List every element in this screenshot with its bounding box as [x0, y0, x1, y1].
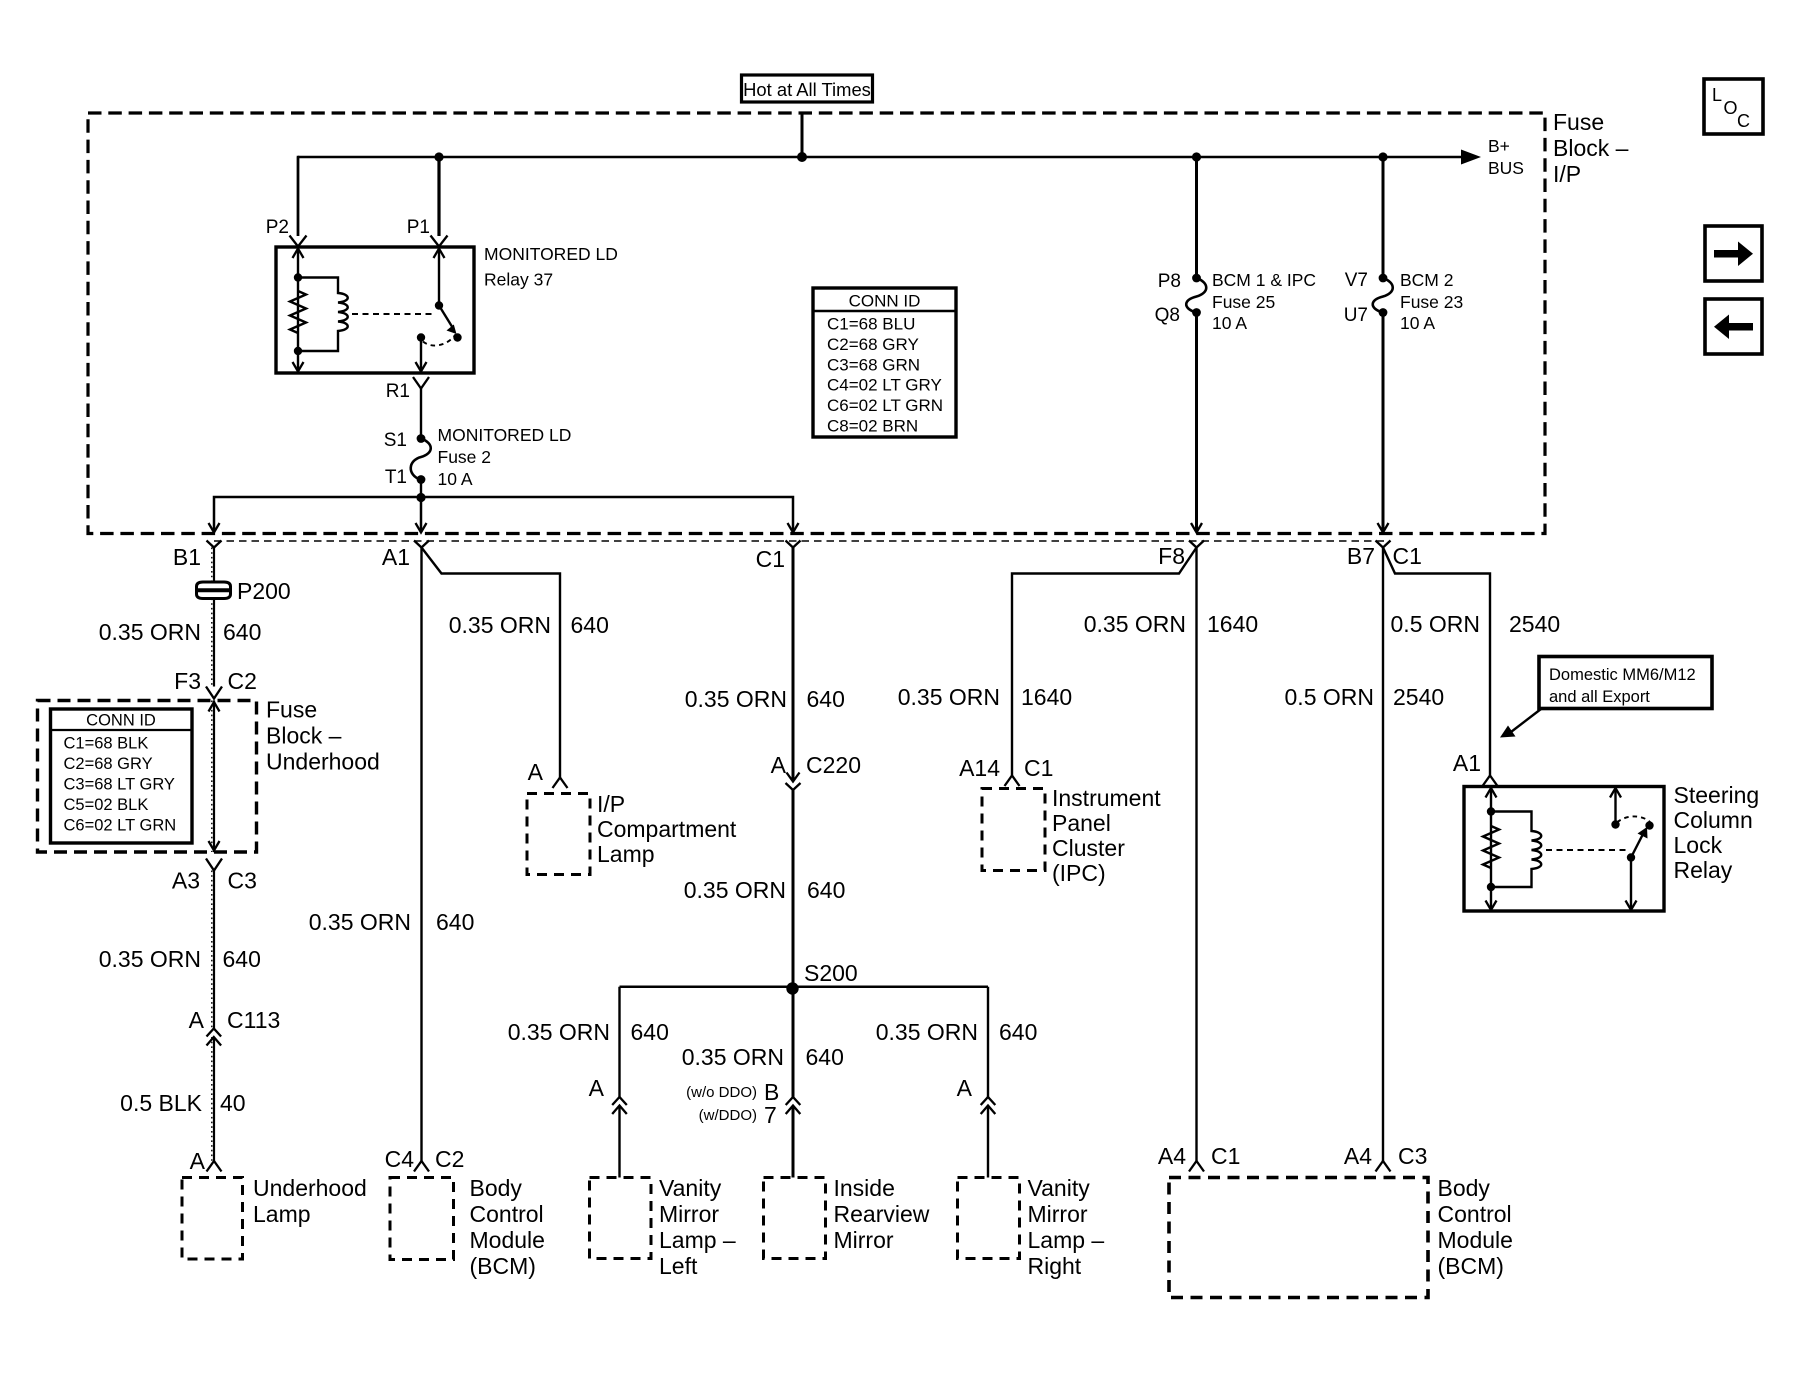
svg-text:B+: B+ [1488, 136, 1510, 156]
steering column lock relay box [1464, 787, 1664, 912]
svg-text:A: A [190, 1148, 206, 1174]
wire to vanity right box [987, 1106, 989, 1178]
steering relay coil pin arrows [1490, 788, 1492, 910]
wire A1 branch to I/P lamp [422, 548, 561, 778]
note arrow [1509, 709, 1541, 734]
pin A underhood lamp [207, 1161, 222, 1172]
next-page arrow box [1705, 226, 1762, 281]
svg-text:640: 640 [807, 686, 845, 712]
relay 37 switch dashed arc [423, 335, 456, 346]
wire R1 to fuse 2 [420, 389, 422, 439]
svg-text:A: A [528, 759, 544, 785]
pin A4/C1 connector [1189, 1161, 1204, 1172]
svg-text:0.5 BLK: 0.5 BLK [120, 1090, 202, 1116]
svg-text:A: A [957, 1075, 973, 1101]
svg-text:and all Export: and all Export [1549, 688, 1650, 706]
svg-text:Block –: Block – [266, 723, 342, 749]
arrow into B1 [209, 523, 220, 533]
S200 distribution wire [620, 985, 989, 988]
svg-text:Underhood: Underhood [253, 1175, 367, 1201]
svg-text:Domestic MM6/M12: Domestic MM6/M12 [1549, 666, 1696, 684]
svg-text:V7: V7 [1345, 270, 1368, 291]
svg-text:Relay: Relay [1674, 857, 1733, 883]
svg-text:Module: Module [470, 1227, 545, 1253]
svg-text:Lamp: Lamp [253, 1201, 311, 1227]
wire S200 to rearview mirror [792, 989, 795, 1098]
pin F3 connector [206, 687, 222, 699]
pin A14 connector [1005, 776, 1020, 787]
pin P1 connector [431, 236, 448, 247]
node steering arm tip [1645, 821, 1653, 829]
svg-text:0.5 ORN: 0.5 ORN [1391, 611, 1480, 637]
svg-text:O: O [1724, 98, 1738, 118]
svg-text:0.35 ORN: 0.35 ORN [309, 909, 411, 935]
wire B1 to P200 [213, 548, 215, 583]
svg-text:Hot at All Times: Hot at All Times [743, 79, 871, 100]
svg-text:C3: C3 [1398, 1143, 1427, 1169]
svg-text:(BCM): (BCM) [1438, 1253, 1504, 1279]
pin P2 connector [290, 236, 307, 247]
steering relay fixed contact [1614, 788, 1616, 823]
svg-text:C113: C113 [227, 1007, 280, 1033]
wire B7 branch to steering relay [1383, 548, 1490, 776]
underhood lamp box [182, 1178, 243, 1260]
svg-text:C1=68 BLK: C1=68 BLK [64, 735, 149, 753]
node bus junction at hot feed [797, 152, 807, 162]
svg-text:I/P: I/P [1553, 161, 1581, 187]
resistor relay 37 internal [290, 291, 306, 333]
svg-text:0.5 ORN: 0.5 ORN [1285, 684, 1374, 710]
note box Domestic MM6/M12 [1539, 657, 1712, 709]
connector A vanity right [981, 1097, 996, 1105]
fuse F23 element [1373, 278, 1393, 313]
svg-text:A1: A1 [1453, 750, 1481, 776]
svg-text:F3: F3 [174, 668, 201, 694]
svg-text:40: 40 [220, 1090, 246, 1116]
wire P200 to F3 [213, 599, 215, 687]
svg-text:(w/DDO): (w/DDO) [699, 1107, 757, 1124]
svg-text:C2=68 GRY: C2=68 GRY [64, 755, 153, 773]
splice P200 [197, 582, 231, 599]
node P1 bus junction [434, 152, 443, 161]
fuse F2 element [411, 439, 431, 480]
svg-text:C1=68 BLU: C1=68 BLU [827, 315, 915, 334]
steering relay actuation dashed link [1546, 849, 1627, 851]
svg-text:F8: F8 [1158, 543, 1185, 569]
svg-text:Lamp: Lamp [597, 841, 655, 867]
svg-text:7: 7 [764, 1102, 777, 1128]
svg-text:(IPC): (IPC) [1052, 860, 1106, 886]
pin B7 connector [1376, 541, 1391, 548]
svg-text:C: C [1737, 111, 1750, 131]
pin A I/P lamp [553, 778, 568, 789]
node BCM1 bus junction [1192, 152, 1201, 161]
svg-text:B1: B1 [173, 544, 201, 570]
svg-text:Vanity: Vanity [1028, 1175, 1091, 1201]
svg-text:C3=68 LT GRY: C3=68 LT GRY [64, 776, 175, 794]
resistor steering relay internal [1483, 826, 1499, 868]
svg-text:Q8: Q8 [1155, 305, 1180, 326]
svg-text:C3: C3 [228, 868, 257, 894]
svg-text:Vanity: Vanity [659, 1175, 722, 1201]
connector C113 [207, 1029, 222, 1037]
svg-text:640: 640 [223, 619, 261, 645]
svg-text:(w/o DDO): (w/o DDO) [686, 1084, 757, 1101]
wire bus to fuse 23 [1382, 157, 1385, 278]
svg-text:CONN ID: CONN ID [849, 292, 921, 311]
I/P compartment lamp box [527, 794, 590, 875]
svg-text:P1: P1 [407, 217, 430, 238]
steering relay dashed arc [1617, 816, 1650, 822]
svg-text:Body: Body [470, 1175, 523, 1201]
svg-text:I/P: I/P [597, 791, 625, 817]
pin A1 steering relay [1483, 776, 1498, 787]
node P8 [1192, 274, 1201, 283]
svg-text:C1: C1 [1393, 543, 1422, 569]
svg-text:Mirror: Mirror [834, 1227, 894, 1253]
wire through underhood block [213, 701, 215, 853]
svg-text:C8=02 BRN: C8=02 BRN [827, 417, 918, 436]
svg-text:C1: C1 [1211, 1143, 1240, 1169]
wire fuse 23 to B7 [1382, 313, 1385, 532]
svg-text:A: A [589, 1075, 605, 1101]
pin A3 connector [206, 859, 222, 871]
svg-text:C2=68 GRY: C2=68 GRY [827, 335, 919, 354]
svg-text:0.35 ORN: 0.35 ORN [99, 946, 201, 972]
table CONN ID fuse block underhood [51, 709, 193, 843]
svg-text:0.35 ORN: 0.35 ORN [898, 684, 1000, 710]
svg-text:640: 640 [631, 1019, 669, 1045]
svg-text:0.35 ORN: 0.35 ORN [684, 877, 786, 903]
node relay coil top [294, 273, 302, 281]
svg-text:0.35 ORN: 0.35 ORN [508, 1019, 610, 1045]
node relay 37 arm tip [453, 333, 461, 341]
svg-text:10 A: 10 A [1400, 313, 1435, 333]
wire T1 to distribution bar [420, 480, 422, 498]
svg-text:CONN ID: CONN ID [86, 712, 156, 730]
svg-text:S200: S200 [804, 960, 858, 986]
svg-text:2540: 2540 [1509, 611, 1560, 637]
wire to vanity left box [618, 1106, 620, 1178]
svg-text:Relay 37: Relay 37 [484, 270, 553, 290]
node S200 splice [786, 982, 798, 994]
fuse block connector face dashed line [214, 540, 1388, 542]
wire P2 feed [297, 157, 299, 236]
node relay coil bottom [294, 347, 302, 355]
svg-text:S1: S1 [384, 430, 407, 451]
BCM box (C4/C2) [390, 1178, 454, 1260]
svg-text:C2: C2 [435, 1146, 464, 1172]
pin A4/C3 connector [1376, 1161, 1391, 1172]
node steering fixed contact [1611, 820, 1619, 828]
svg-text:C2: C2 [228, 668, 257, 694]
vanity mirror lamp left box [590, 1178, 652, 1259]
wire B7 to BCM A4/C3 [1382, 548, 1384, 1162]
svg-text:C220: C220 [806, 752, 861, 778]
svg-text:C3=68 GRN: C3=68 GRN [827, 355, 920, 374]
svg-text:T1: T1 [385, 467, 407, 488]
svg-text:A: A [189, 1007, 205, 1033]
wire A3 to C113 [213, 871, 215, 1029]
svg-text:C4=02 LT GRY: C4=02 LT GRY [827, 376, 942, 395]
inside rearview mirror box [764, 1178, 826, 1259]
node relay 37 output [417, 333, 425, 341]
svg-text:640: 640 [999, 1019, 1037, 1045]
svg-text:Fuse 25: Fuse 25 [1212, 292, 1275, 312]
arrow into B7 [1378, 523, 1389, 533]
svg-text:0.35 ORN: 0.35 ORN [876, 1019, 978, 1045]
svg-text:640: 640 [571, 612, 609, 638]
pin C1 connector [786, 541, 801, 548]
svg-text:C6=02 LT GRN: C6=02 LT GRN [64, 817, 177, 835]
svg-text:Fuse: Fuse [266, 697, 317, 723]
svg-text:A3: A3 [172, 868, 200, 894]
pin R1 connector [413, 377, 429, 389]
node steering coil bottom [1487, 883, 1495, 891]
inductor steering relay coil [1491, 812, 1541, 888]
inductor relay 37 coil [298, 278, 348, 352]
steering relay common pin [1630, 858, 1632, 910]
svg-text:L: L [1712, 85, 1722, 105]
arrow into F8 [1191, 523, 1202, 533]
node steering switch common [1627, 853, 1635, 861]
svg-text:Rearview: Rearview [834, 1201, 930, 1227]
svg-text:Cluster: Cluster [1052, 835, 1125, 861]
fuse block underhood dashed outline [38, 701, 257, 853]
svg-text:0.35 ORN: 0.35 ORN [449, 612, 551, 638]
relay 37 switch arm [439, 306, 454, 330]
svg-text:Lamp –: Lamp – [1028, 1227, 1105, 1253]
relay 37 actuation dashed link [352, 313, 434, 315]
svg-text:B7: B7 [1347, 543, 1375, 569]
svg-text:Control: Control [1438, 1201, 1512, 1227]
svg-text:A1: A1 [382, 544, 410, 570]
connector A vanity left [612, 1097, 627, 1105]
svg-text:A14: A14 [959, 755, 1000, 781]
svg-text:Mirror: Mirror [659, 1201, 719, 1227]
pin F8 connector [1189, 541, 1204, 548]
svg-text:Mirror: Mirror [1028, 1201, 1088, 1227]
B+ bus wire [298, 156, 1470, 159]
wire F8 to BCM A4/C1 [1195, 548, 1197, 1162]
distribution bar wire [214, 497, 793, 531]
svg-text:10 A: 10 A [1212, 313, 1247, 333]
wire C113 to underhood lamp [213, 1037, 215, 1161]
svg-text:Left: Left [659, 1253, 698, 1279]
arrow into A1 [416, 523, 427, 533]
pin A1 connector [414, 541, 429, 548]
svg-text:A: A [771, 752, 787, 778]
wire to rearview box [792, 1106, 795, 1178]
svg-text:P200: P200 [237, 578, 291, 604]
B+ BUS arrowhead [1461, 150, 1481, 165]
instrument panel cluster box [982, 789, 1045, 871]
svg-text:BCM 2: BCM 2 [1400, 270, 1453, 290]
arrow into C1 [788, 523, 799, 533]
body control module box [1169, 1178, 1428, 1298]
wire F8 branch to IPC [1012, 548, 1197, 776]
wire P1 feed [437, 157, 440, 236]
svg-text:2540: 2540 [1393, 684, 1444, 710]
svg-text:Right: Right [1028, 1253, 1082, 1279]
relay 37 switch common pin [438, 249, 440, 304]
prev-page arrow box [1705, 299, 1762, 354]
svg-text:R1: R1 [386, 381, 410, 402]
svg-text:Compartment: Compartment [597, 816, 737, 842]
table CONN ID fuse block I/P [813, 288, 956, 437]
svg-text:BUS: BUS [1488, 158, 1524, 178]
svg-text:MONITORED LD: MONITORED LD [484, 244, 618, 264]
svg-text:1640: 1640 [1207, 611, 1258, 637]
connector B/7 rearview [786, 1097, 801, 1105]
svg-text:Fuse 23: Fuse 23 [1400, 292, 1463, 312]
node U7 [1379, 308, 1388, 317]
svg-text:P8: P8 [1158, 271, 1181, 292]
svg-text:640: 640 [806, 1044, 844, 1070]
svg-text:Fuse 2: Fuse 2 [438, 447, 492, 467]
wire bus to fuse 25 [1195, 157, 1198, 278]
node Q8 [1192, 308, 1201, 317]
svg-text:P2: P2 [266, 217, 289, 238]
svg-text:C1: C1 [756, 546, 785, 572]
svg-text:0.35 ORN: 0.35 ORN [99, 619, 201, 645]
pin C4 connector [414, 1161, 429, 1172]
relay U37 box [276, 247, 474, 373]
svg-text:Instrument: Instrument [1052, 785, 1161, 811]
svg-text:Inside: Inside [834, 1175, 895, 1201]
svg-text:Control: Control [470, 1201, 544, 1227]
svg-text:(BCM): (BCM) [470, 1253, 536, 1279]
svg-text:A4: A4 [1344, 1143, 1372, 1169]
node T1 [417, 475, 426, 484]
svg-text:640: 640 [436, 909, 474, 935]
svg-text:C5=02 BLK: C5=02 BLK [64, 796, 149, 814]
svg-text:U7: U7 [1344, 305, 1368, 326]
svg-text:Block –: Block – [1553, 135, 1629, 161]
svg-text:Module: Module [1438, 1227, 1513, 1253]
svg-text:Column: Column [1674, 807, 1753, 833]
svg-text:C1: C1 [1024, 755, 1053, 781]
wire S200 to vanity left [618, 987, 620, 1097]
node S1 [417, 434, 426, 443]
svg-text:Lock: Lock [1674, 832, 1723, 858]
LOC reference box [1704, 79, 1763, 134]
svg-text:C4: C4 [385, 1146, 415, 1172]
node BCM2 bus junction [1378, 152, 1387, 161]
fuse F25 element [1186, 278, 1206, 313]
wire C220 to S200 [792, 790, 795, 988]
svg-text:Underhood: Underhood [266, 749, 380, 775]
svg-text:Steering: Steering [1674, 782, 1760, 808]
node steering coil top [1487, 807, 1495, 815]
svg-text:Lamp –: Lamp – [659, 1227, 736, 1253]
svg-text:640: 640 [223, 946, 261, 972]
fuse block I/P dashed outline [88, 113, 1545, 534]
svg-text:0.35 ORN: 0.35 ORN [1084, 611, 1186, 637]
svg-text:MONITORED LD: MONITORED LD [438, 425, 572, 445]
node distribution junction [416, 493, 425, 502]
svg-text:Fuse: Fuse [1553, 109, 1604, 135]
wire fuse 25 to F8 [1195, 313, 1198, 532]
wire from Hot at All Times to B+ bus [801, 113, 804, 157]
node V7 [1379, 274, 1388, 283]
svg-text:Panel: Panel [1052, 810, 1111, 836]
node relay 37 switch common [435, 301, 443, 309]
svg-text:Body: Body [1438, 1175, 1491, 1201]
pin B1 connector [207, 541, 222, 548]
svg-text:A4: A4 [1158, 1143, 1186, 1169]
power label box Hot at All Times [742, 75, 873, 102]
svg-text:0.35 ORN: 0.35 ORN [682, 1044, 784, 1070]
relay 37 coil pin arrows [297, 249, 299, 371]
wire S200 to vanity right [987, 987, 989, 1097]
vanity mirror lamp right box [958, 1178, 1020, 1259]
wire C1 to C220 [792, 548, 795, 781]
svg-text:0.35 ORN: 0.35 ORN [685, 686, 787, 712]
steering relay switch arm [1631, 835, 1643, 858]
svg-text:1640: 1640 [1021, 684, 1072, 710]
relay 37 output pin [420, 338, 422, 372]
connector C220 [787, 773, 800, 782]
wire A1 to BCM C4 [420, 548, 422, 1162]
svg-text:640: 640 [807, 877, 845, 903]
svg-text:BCM 1 & IPC: BCM 1 & IPC [1212, 270, 1316, 290]
svg-text:10 A: 10 A [438, 469, 473, 489]
svg-text:C6=02 LT GRN: C6=02 LT GRN [827, 396, 943, 415]
